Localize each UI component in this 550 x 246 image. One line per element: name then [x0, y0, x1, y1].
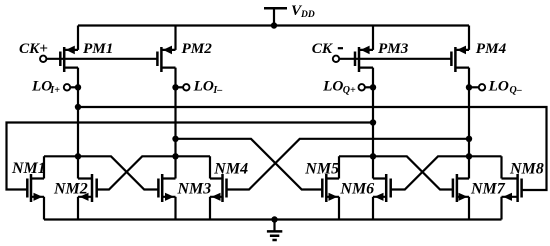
svg-text:Q–: Q–	[510, 85, 522, 96]
svg-text:LO: LO	[488, 78, 509, 95]
svg-text:NM8: NM8	[509, 161, 544, 178]
svg-text:CK+: CK+	[19, 40, 48, 57]
svg-text:LO: LO	[193, 78, 214, 95]
svg-text:I+: I+	[49, 85, 60, 96]
svg-text:NM5: NM5	[304, 161, 339, 178]
svg-text:PM1: PM1	[83, 40, 113, 57]
svg-text:PM4: PM4	[476, 40, 507, 57]
svg-text:LO: LO	[322, 78, 343, 95]
svg-text:I–: I–	[212, 85, 222, 96]
svg-text:NM1: NM1	[11, 160, 46, 177]
svg-text:PM3: PM3	[378, 40, 409, 57]
svg-text:PM2: PM2	[182, 40, 213, 57]
svg-text:LO: LO	[31, 78, 52, 95]
svg-text:NM6: NM6	[339, 180, 374, 197]
svg-text:NM2: NM2	[53, 180, 88, 197]
svg-text:NM4: NM4	[213, 161, 248, 178]
svg-text:NM7: NM7	[470, 180, 506, 197]
svg-text:DD: DD	[300, 10, 315, 20]
svg-text:NM3: NM3	[177, 180, 212, 197]
svg-text:Q+: Q+	[343, 85, 356, 96]
svg-text:CK: CK	[312, 40, 333, 57]
